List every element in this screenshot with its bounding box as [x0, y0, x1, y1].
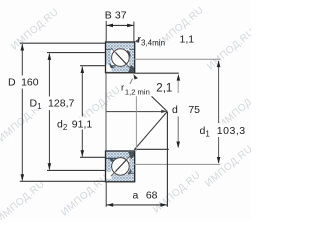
svg-text:2,1: 2,1 — [156, 82, 172, 94]
a left arrow — [107, 203, 114, 207]
watermark 2 — [154, 5, 206, 51]
dark corner wedge bottom-right — [128, 65, 135, 72]
top section outline — [106, 42, 135, 73]
contact angle line through bottom ball — [111, 152, 134, 176]
label d2 91,1 — [57, 118, 93, 130]
r1,2 vertical leader to bottom section corner — [135, 96, 137, 151]
svg-text:a68: a68 — [133, 190, 158, 202]
d top arrow — [177, 74, 181, 81]
r3,4 leader arrow — [135, 39, 140, 42]
D dimension line upper segment — [21, 44, 23, 76]
bottom band left stub under notch — [106, 179, 112, 182]
B dimension line — [106, 24, 134, 26]
label D 160 — [8, 76, 38, 87]
contact line extension from bottom section to apex — [135, 112, 168, 150]
dark raceway streak lower-right of ball — [128, 169, 132, 175]
inner band left stub under notch — [106, 71, 112, 72]
label d 75 — [172, 104, 201, 116]
d2 dimension line lower segment — [81, 130, 83, 157]
a dimension line — [106, 204, 167, 206]
ball (top) — [112, 49, 130, 67]
svg-text:B37: B37 — [105, 10, 127, 22]
svg-text:1,1: 1,1 — [180, 34, 195, 46]
dark raceway streak lower-left of ball — [109, 63, 115, 68]
a right extension line (apex drop) — [166, 112, 168, 207]
watermark 6 — [71, 85, 123, 131]
bore top extension line — [134, 72, 179, 74]
watermark 4 — [217, 85, 269, 131]
d2 top extension line — [80, 65, 106, 67]
d2 bottom extension line — [80, 156, 106, 158]
svg-text:1,2 min: 1,2 min — [125, 88, 150, 97]
watermark 9 — [151, 170, 203, 216]
watermark 1 — [9, 7, 61, 53]
label D1 128,7 — [29, 98, 74, 110]
D top arrow — [21, 44, 25, 51]
B right arrow — [127, 24, 134, 28]
left shoulder hatch block — [106, 49, 112, 64]
d1 top arrow — [217, 61, 221, 68]
svg-text:d291,1: d291,1 — [57, 118, 92, 132]
outer ring bottom band hatch — [112, 175, 135, 182]
label r1,2 min — [120, 84, 151, 96]
d2 top arrow — [81, 66, 85, 73]
D top extension line — [20, 42, 106, 44]
inner ring shelf dark edge — [111, 65, 116, 67]
d dimension line lower segment — [177, 117, 179, 148]
d2 bottom arrow — [81, 150, 85, 157]
contact line extension to apex (from r1,2 label) — [152, 96, 168, 111]
bottom section outline — [106, 151, 135, 182]
right shoulder hatch block — [129, 49, 135, 66]
svg-text:r: r — [121, 83, 124, 94]
d1 bottom arrow — [217, 157, 221, 164]
r1,2 leader line — [130, 79, 133, 85]
dark raceway streak upper-left of ball — [109, 157, 115, 162]
label d1 103,3 — [199, 124, 247, 137]
D dimension line lower segment — [21, 89, 23, 181]
outer ring shelf line right — [129, 48, 134, 50]
D1 bottom extension line — [47, 169, 106, 171]
D1 bottom arrow — [48, 163, 52, 170]
right shoulder hatch block — [129, 157, 135, 174]
r3,4 leader line — [136, 39, 140, 42]
left shoulder hatch block — [106, 158, 112, 171]
B left arrow — [106, 24, 113, 28]
bore bottom extension line — [134, 148, 169, 150]
a right arrow — [160, 203, 167, 207]
d2 dimension line upper segment — [81, 67, 83, 117]
D1 dimension line upper segment — [48, 54, 50, 97]
contact angle line through top ball — [111, 48, 134, 72]
groove clearance around ball — [111, 48, 130, 67]
contact line stub below top section corner — [133, 74, 138, 79]
outer ring top band hatch — [106, 42, 135, 49]
watermark 7 — [0, 179, 47, 225]
D1 dimension line lower segment — [48, 110, 50, 170]
left face extension between sections — [105, 74, 107, 151]
groove clearance around ball — [111, 157, 130, 176]
ball (bottom) — [112, 158, 130, 176]
svg-text:D1128,7: D1128,7 — [30, 98, 75, 112]
inner ring top band hatch — [106, 151, 135, 158]
d1 dimension line upper segment — [218, 61, 220, 123]
centerline (axis) with arrow at apex — [106, 111, 162, 113]
svg-text:r3,4min: r3,4min — [138, 34, 166, 48]
dark corner wedge top-right — [128, 152, 135, 159]
svg-text:D160: D160 — [8, 77, 39, 89]
B extension line right — [133, 22, 135, 42]
watermark 8 — [59, 173, 111, 219]
outer ring shelf line left — [106, 48, 112, 50]
watermark 5 — [0, 99, 48, 145]
d bottom arrow — [176, 142, 180, 149]
D1 top extension line — [47, 52, 106, 54]
d1 dimension line lower segment — [218, 137, 220, 163]
d dimension line upper segment — [177, 81, 179, 94]
inner ring bottom band hatch — [112, 66, 135, 73]
outer ring shelf line right — [129, 173, 134, 175]
d1 bottom extension line — [134, 163, 221, 165]
dark raceway streak upper-right of ball — [127, 50, 131, 57]
watermark 3 — [205, 27, 257, 73]
watermark 10 — [203, 144, 255, 190]
B extension line left — [105, 21, 107, 42]
d1 top extension line — [134, 58, 221, 60]
D1 top arrow — [48, 53, 52, 60]
D bottom arrow — [21, 174, 25, 181]
inner ring shelf dark edge — [106, 157, 117, 159]
a left extension line (left face, below section) — [105, 181, 107, 207]
D bottom extension line — [20, 180, 106, 182]
